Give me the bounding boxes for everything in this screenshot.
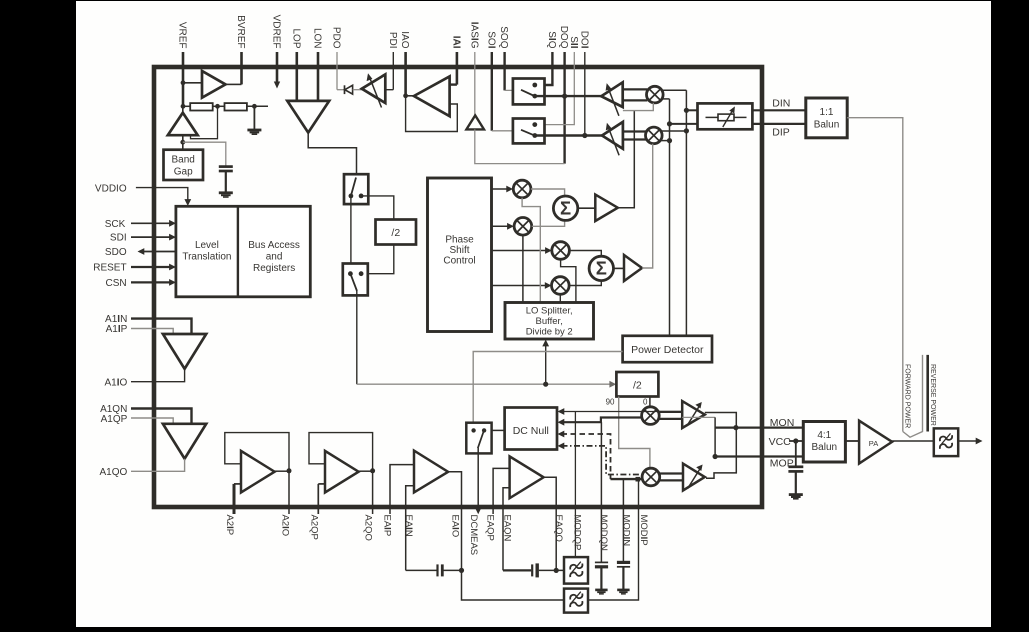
wire M2 outputs to bus [661, 131, 687, 141]
Band Gap box [164, 150, 204, 180]
wire 0 degree LO [649, 397, 651, 408]
wire mixer C out to summer 2 [569, 251, 601, 257]
wire SCK (arrow) [131, 220, 176, 227]
svg-text:1:1: 1:1 [820, 107, 834, 118]
pin IASIG [468, 22, 479, 116]
wire amp to band gap [180, 135, 185, 150]
svg-text:A2QP: A2QP [308, 515, 319, 540]
pin DOI [578, 31, 589, 136]
wire S2 output to /2 (second) [357, 291, 616, 388]
svg-text:Power Detector: Power Detector [631, 344, 704, 356]
pin SOQ [498, 26, 522, 90]
VGA out Q (points right, variable) [683, 464, 705, 491]
wire EAQP input [493, 468, 510, 514]
4:1 Balun [803, 422, 845, 463]
LO Splitter box [505, 303, 594, 340]
wire mixer A LO leg [522, 198, 540, 303]
wire S1 to /2 divider [361, 196, 394, 220]
pin PDI [387, 32, 398, 90]
wire DC null sense 4 (dash-dot) [558, 443, 643, 475]
wire A1QO [131, 459, 185, 472]
svg-text:4:1: 4:1 [817, 430, 831, 441]
svg-text:EAIO: EAIO [449, 515, 460, 538]
svg-text:DIN: DIN [772, 98, 790, 110]
svg-text:VREF: VREF [177, 22, 188, 49]
svg-text:/2: /2 [391, 227, 400, 239]
reverse power bar [926, 355, 929, 432]
wire PSC to mixer A (arrow) [492, 186, 514, 193]
svg-text:SDI: SDI [110, 233, 127, 244]
wire amp2 out up to M2 [642, 144, 653, 268]
wire MODQP [574, 412, 576, 558]
wire EAQN input [503, 488, 510, 571]
svg-text:EAIN: EAIN [403, 515, 414, 537]
svg-text:and: and [266, 252, 283, 263]
mixer A [513, 180, 531, 198]
svg-text:Registers: Registers [253, 263, 295, 274]
wire M2 to VGA out Q (diff) [659, 474, 683, 481]
wire SDI (arrow) [131, 234, 176, 241]
wire A2QP input [318, 484, 325, 514]
wire MODQN [600, 422, 602, 562]
svg-text:A2IP: A2IP [224, 515, 235, 536]
mixer C [552, 242, 570, 260]
wire LO amp to switch S1 [308, 133, 356, 175]
svg-text:SII: SII [568, 36, 579, 48]
wire DIN [752, 109, 805, 111]
wire amp1 out up to VGA1/M1 [618, 103, 654, 208]
divider /2 (second) [616, 372, 658, 397]
svg-text:Divide by 2: Divide by 2 [526, 327, 573, 338]
wire mixer D out to summer 2 [569, 281, 601, 286]
amp after summer 2 [614, 255, 643, 281]
wire M1 to VGA out I (diff) [659, 412, 682, 419]
wire CSN (arrow) [131, 279, 176, 286]
mixer M2 [646, 127, 663, 144]
filter 2 (EAI path) [564, 589, 588, 613]
pin PDO [331, 27, 342, 90]
svg-text:MODIN: MODIN [621, 515, 632, 547]
filter 1 (EAQ path) [564, 557, 588, 584]
svg-text:MODQP: MODQP [571, 515, 582, 551]
wire output arrow [958, 438, 982, 445]
svg-text:CSN: CSN [105, 278, 126, 289]
capacitor MODIN [617, 562, 630, 566]
svg-text:EAQN: EAQN [502, 515, 513, 542]
pin DOQ [558, 26, 569, 164]
summer S1 [553, 196, 577, 220]
chip outline [154, 67, 762, 507]
wire EAIO output [448, 472, 564, 600]
op-amp EAQ [510, 456, 544, 498]
wire power detector to DC null switch [473, 352, 622, 423]
Power Detector box [623, 336, 712, 362]
svg-text:VDDIO: VDDIO [95, 183, 127, 194]
svg-text:A1QP: A1QP [101, 414, 128, 425]
svg-text:A1IO: A1IO [105, 377, 128, 388]
svg-text:DIP: DIP [772, 127, 790, 139]
op-amp A1Q (points down) [163, 424, 206, 459]
mixer M1 [647, 86, 664, 103]
wire SDO (arrow out) [138, 248, 176, 255]
svg-text:SOI: SOI [485, 31, 496, 48]
svg-text:IAI: IAI [450, 36, 461, 49]
wire to capacitor [183, 142, 226, 166]
wire mixer D LO leg [559, 294, 561, 302]
svg-text:Σ: Σ [560, 198, 571, 219]
switch S2 [343, 264, 368, 296]
wire RESET (arrow) [131, 264, 176, 271]
capacitor (EAQN-EAQO) [503, 563, 564, 577]
pin SOI [485, 31, 522, 131]
svg-text:Control: Control [443, 256, 475, 267]
resistor R1 [183, 103, 213, 110]
wire MODIP [588, 479, 639, 600]
VGA PD (points left, variable) [362, 73, 394, 107]
1:1 Balun [806, 98, 847, 138]
wire VGA base to MOP [682, 417, 715, 456]
svg-text:SDO: SDO [105, 247, 127, 258]
capacitor MODQN [595, 562, 608, 566]
op-amp EAI [414, 451, 448, 493]
wire LO to splitter (arrow up) [542, 340, 549, 385]
op-amp buffer U1 (VREF buffer) [181, 71, 242, 98]
wire MOP [713, 454, 804, 459]
svg-text:Translation: Translation [182, 252, 231, 263]
svg-text:REVERSE POWER: REVERSE POWER [929, 364, 936, 426]
op-amp A2Q [325, 451, 375, 493]
wire A1IP [131, 329, 173, 335]
op-amp A1I (points down) [163, 334, 206, 369]
svg-text:VDREF: VDREF [271, 15, 282, 49]
wire bus vertical 1 (to power detector) [667, 99, 672, 336]
svg-text:A1QO: A1QO [100, 467, 128, 478]
DC Null box [505, 408, 557, 450]
mixer D [552, 277, 570, 295]
Level Translation / Bus Access box [176, 206, 310, 296]
attenuator (variable resistor box) [698, 103, 753, 129]
amp after summer 1 [578, 195, 618, 222]
op-amp A2I [241, 451, 292, 493]
switch SW1 (I select) [513, 79, 545, 105]
svg-text:Balun: Balun [812, 442, 838, 453]
svg-text:SOQ: SOQ [498, 26, 509, 48]
wire DCMEAS (arrow down) [475, 448, 482, 514]
mixer MOD-I [642, 407, 660, 425]
svg-text:IAO: IAO [399, 31, 410, 48]
wire M1 outputs to bus [662, 90, 687, 99]
wire PSC to mixer C (arrow) [492, 247, 552, 254]
svg-text:A2IO: A2IO [279, 515, 290, 537]
wire A1IN [131, 319, 192, 334]
wire mixer B out to summer [532, 220, 565, 226]
wire A1QP [131, 418, 173, 424]
wire DIP [752, 123, 805, 125]
op-amp A (bandgap amp, points up) [168, 106, 198, 135]
wire A2I feedback [225, 433, 289, 471]
wire mixer A out to summer [531, 189, 565, 196]
wire bus vertical 2 (to power detector) [684, 90, 689, 335]
wire DC null sense 1 (thin) [558, 408, 683, 415]
buffer IASIG (points up) [466, 115, 484, 129]
node VREF junction [181, 104, 186, 109]
mixer B [514, 218, 532, 236]
capacitor VCC [788, 441, 803, 471]
ground (MODIN) [617, 568, 629, 595]
svg-text:DOQ: DOQ [558, 26, 569, 49]
VGA1 (demod I, points left) [601, 82, 623, 116]
svg-text:SCK: SCK [105, 219, 126, 230]
mixer MOD-Q [642, 468, 660, 486]
wire A2QO output [372, 471, 374, 514]
filter (PA output) [934, 428, 958, 456]
op-amp IA (points left) [403, 76, 457, 116]
svg-text:MON: MON [770, 417, 795, 429]
capacitor C1 [219, 167, 233, 171]
svg-text:PDI: PDI [387, 32, 398, 49]
wire DOQ to IASIG buffer [475, 129, 565, 163]
svg-text:90: 90 [606, 398, 615, 407]
switch SW2 (Q select) [513, 119, 545, 144]
svg-text:Shift: Shift [449, 245, 469, 256]
wire S1 to S2 [350, 196, 352, 264]
ground (VCC cap) [789, 471, 803, 499]
svg-text:/2: /2 [633, 380, 642, 392]
svg-text:DOI: DOI [578, 31, 589, 49]
svg-text:PA: PA [869, 439, 878, 448]
svg-text:Phase: Phase [445, 235, 474, 246]
ground (MODQN) [595, 568, 607, 595]
svg-text:Σ: Σ [596, 258, 607, 279]
wire A1QN [131, 409, 192, 424]
svg-text:IASIG: IASIG [468, 22, 479, 49]
pin LON [312, 28, 323, 101]
divider /2 (first) [376, 220, 417, 245]
svg-text:Band: Band [172, 154, 195, 165]
svg-text:DCMEAS: DCMEAS [468, 515, 479, 556]
wire mixer B LO leg [522, 235, 524, 302]
Phase Shift Control box [428, 178, 492, 332]
wire VCC [789, 438, 803, 443]
wire 90 degree LO [619, 397, 650, 469]
wire MODIN [622, 479, 624, 562]
pin LOP [290, 28, 301, 100]
resistor R2 [213, 103, 268, 110]
wire VGA out I to MON [705, 413, 739, 479]
wire EAIN input [406, 486, 414, 571]
ground (below C1) [219, 171, 233, 198]
amplifier LO input (points down) [287, 101, 329, 133]
svg-text:LO Splitter,: LO Splitter, [526, 306, 573, 317]
svg-text:MODQN: MODQN [598, 515, 609, 552]
svg-text:LOP: LOP [290, 28, 301, 48]
svg-text:Balun: Balun [814, 120, 840, 131]
wire SW2 output to VGA2 [535, 133, 602, 138]
svg-text:Level: Level [195, 240, 219, 251]
svg-text:EAIP: EAIP [381, 515, 392, 537]
wire PA to filter [892, 440, 934, 442]
coupler forward power [903, 355, 923, 437]
pin SIQ [535, 31, 557, 85]
pin SII [535, 36, 579, 124]
svg-text:FORWARD POWER: FORWARD POWER [903, 364, 910, 428]
svg-text:LON: LON [312, 28, 323, 49]
wire MON [715, 427, 803, 429]
svg-text:Buffer,: Buffer, [536, 316, 563, 327]
svg-text:DC Null: DC Null [513, 425, 549, 437]
wire DC null sense 2 (solid) [558, 418, 642, 426]
svg-text:EAQO: EAQO [553, 515, 564, 542]
wire PSC to mixer D (arrow) [492, 282, 552, 289]
wire PSC to mixer B (arrow) [492, 223, 514, 230]
svg-text:EAQP: EAQP [485, 515, 496, 541]
svg-text:PDO: PDO [331, 27, 342, 49]
pin IAO [399, 31, 410, 96]
wire EAQO output [544, 477, 557, 570]
pin BVREF [235, 15, 246, 84]
wire A2IO output [288, 471, 290, 514]
wire SW1 output to VGA1 [535, 94, 601, 99]
wire IA feedback [406, 96, 458, 132]
pin VREF [177, 22, 188, 106]
svg-text:VCC: VCC [769, 436, 792, 448]
wire attenuator inputs [670, 110, 698, 124]
svg-text:A1IP: A1IP [106, 324, 128, 335]
diode (PDO) [337, 85, 362, 94]
ground (at R2) [247, 106, 261, 135]
wire mixer C LO leg [561, 259, 576, 302]
svg-text:0: 0 [643, 398, 648, 407]
switch S1 (LO divider bypass) [344, 174, 368, 204]
wire VDDIO (arrow into box) [136, 188, 191, 206]
wire /2 to S2 [361, 245, 394, 274]
wire balun output down to coupler [847, 118, 903, 432]
svg-text:Gap: Gap [174, 166, 193, 177]
wire feedback R1/R2 node to amp base [191, 106, 218, 138]
wire DC null sense 3 (dashed) [558, 431, 643, 482]
svg-text:SIQ: SIQ [546, 31, 557, 48]
wire A1IO [131, 369, 185, 382]
svg-text:A2QO: A2QO [363, 515, 374, 541]
svg-text:RESET: RESET [93, 263, 126, 274]
wire A2Q feedback [309, 433, 373, 471]
pin IAI [450, 36, 461, 85]
VGA out I (points right, variable) [682, 401, 705, 428]
wire EAIP input [390, 465, 414, 514]
DC null switch [466, 423, 504, 454]
VGA2 (demod Q, points left) [602, 122, 623, 155]
wire VGA2 to mixer M2 (diff pair) [623, 132, 646, 140]
svg-text:MODIP: MODIP [638, 515, 649, 546]
summer S2 [589, 256, 613, 280]
wire A2IP input [234, 484, 241, 514]
svg-text:BVREF: BVREF [235, 15, 246, 48]
wire VGA1 to mixer M1 (diff pair) [623, 89, 648, 100]
capacitor (EAIN-EAIO) [406, 564, 464, 576]
svg-text:Bus Access: Bus Access [248, 240, 300, 251]
pin VDREF [271, 15, 282, 89]
PA amplifier [845, 421, 892, 464]
